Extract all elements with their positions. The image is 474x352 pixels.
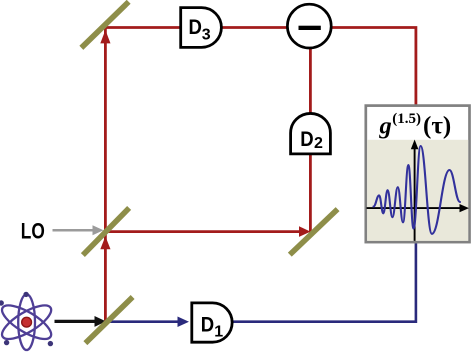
wire: blue beam from bottom splitter to D1 with arrowhead (110, 320, 179, 323)
wire: red beam, vertical through D2 (subtractor down to right mirror) (309, 29, 312, 234)
atom source (0, 292, 56, 350)
graph plot area (beige) (367, 140, 468, 241)
nucleus (22, 317, 32, 327)
electron lower-right (48, 341, 53, 346)
orbit ellipse (vertical) (18, 294, 35, 350)
detector D3 (shape) (181, 8, 222, 48)
svg-text:(τ): (τ) (423, 113, 451, 140)
svg-text:D: D (300, 127, 313, 151)
mirror: right-middle (olive bar) (288, 207, 340, 257)
wire: red signal beam, vertical left (bottom splitter up to top mirror) (104, 26, 107, 320)
electron top (23, 292, 28, 297)
electron lower-left (4, 340, 9, 345)
svg-text:D: D (201, 313, 214, 337)
arrow: gray, LO input into middle splitter (53, 229, 95, 232)
beam splitter: middle-left (olive bar) (81, 206, 131, 257)
graph waveform (blue chirp) (374, 146, 461, 234)
svg-text:2: 2 (314, 135, 323, 152)
svg-text:D: D (189, 15, 202, 39)
beam splitter: bottom (olive bar) (83, 295, 134, 345)
detector D1 (shape) (192, 303, 232, 342)
orbit ellipse (diagonal down-right) (0, 299, 56, 345)
wire: red beam, horizontal LO path from middle splitter to right mirror (106, 230, 302, 233)
wire: red beam, top horizontal from mirror to subtractor and right corner down to graph box (104, 28, 416, 108)
graph box frame (366, 106, 470, 243)
arrowhead: red, pointing up below middle splitter (100, 236, 110, 249)
electron upper-left (0, 300, 4, 305)
svg-text:1: 1 (214, 324, 223, 341)
graph vertical axis (414, 147, 416, 241)
svg-text:3: 3 (202, 26, 211, 43)
arrow: black, atom beam into bottom splitter (55, 320, 97, 323)
svg-text:LO: LO (21, 219, 45, 244)
graph horizontal axis (367, 207, 462, 209)
subtractor unit (minus circle) (287, 4, 331, 48)
arrowhead: red, pointing right into right mirror (299, 226, 311, 237)
svg-text:(1.5): (1.5) (392, 111, 421, 127)
arrowhead: red, pointing up below top mirror (100, 30, 110, 43)
detector D2 (dome shape) (291, 113, 331, 153)
svg-text:g: g (379, 113, 392, 140)
orbit ellipse (diagonal up-right) (0, 299, 56, 345)
wire: blue beam from D1 right, to corner, up to graph box bottom (232, 242, 416, 322)
mirror: top-left (olive bar) (79, 0, 130, 50)
